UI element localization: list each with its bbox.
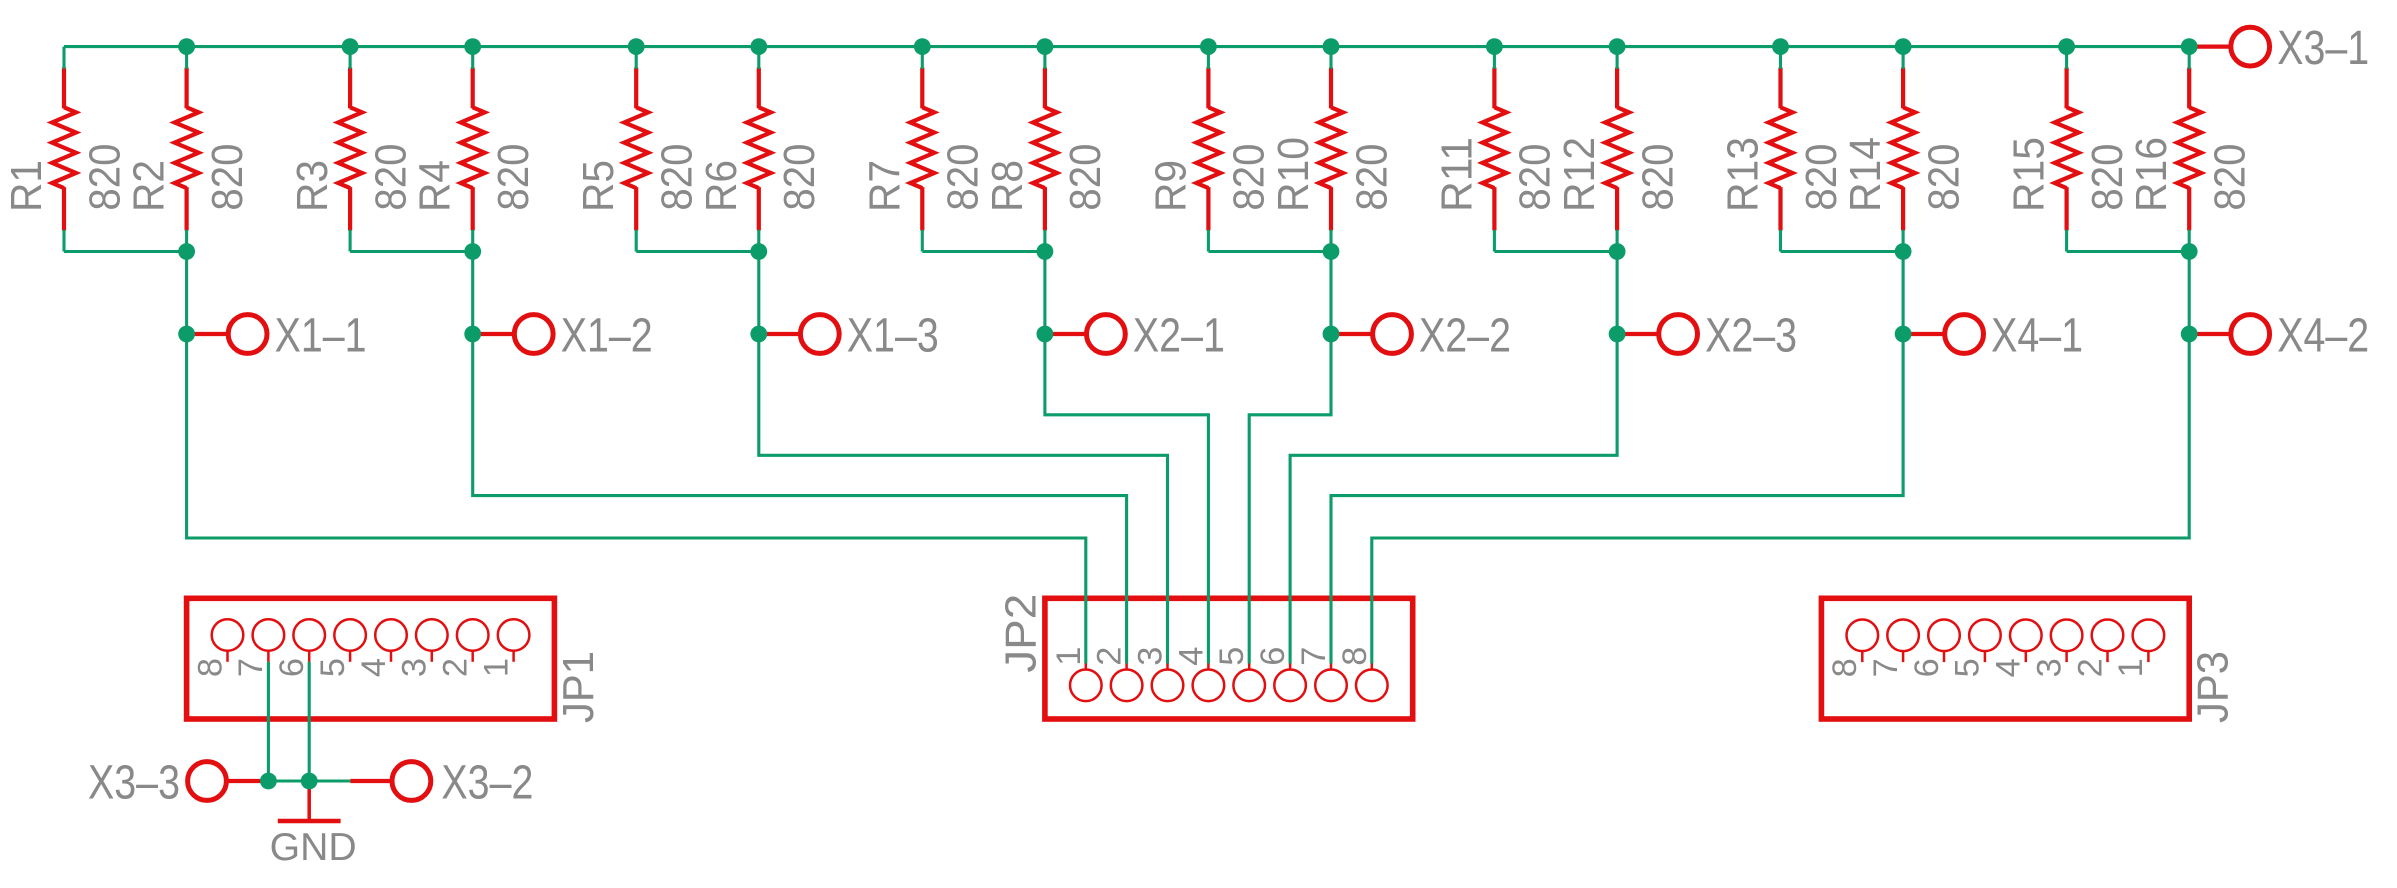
svg-text:6: 6 xyxy=(1254,647,1292,666)
svg-text:JP1: JP1 xyxy=(554,651,603,723)
svg-text:X2–1: X2–1 xyxy=(1133,309,1225,363)
svg-text:5: 5 xyxy=(314,658,352,677)
svg-text:R6: R6 xyxy=(698,160,746,212)
svg-text:R3: R3 xyxy=(289,160,337,212)
svg-text:6: 6 xyxy=(273,658,311,677)
svg-text:R10: R10 xyxy=(1270,137,1318,212)
svg-text:820: 820 xyxy=(776,144,824,211)
svg-text:X4–1: X4–1 xyxy=(1991,309,2083,363)
svg-text:R2: R2 xyxy=(126,160,174,212)
svg-text:820: 820 xyxy=(1920,144,1968,211)
svg-text:X2–3: X2–3 xyxy=(1705,309,1797,363)
svg-text:GND: GND xyxy=(270,826,357,869)
svg-text:X3–1: X3–1 xyxy=(2277,21,2369,75)
svg-text:8: 8 xyxy=(1826,658,1864,677)
svg-text:8: 8 xyxy=(191,658,229,677)
svg-text:X2–2: X2–2 xyxy=(1419,309,1511,363)
svg-text:X3–2: X3–2 xyxy=(441,756,533,810)
svg-text:820: 820 xyxy=(367,144,415,211)
svg-text:X1–2: X1–2 xyxy=(561,309,653,363)
svg-text:7: 7 xyxy=(1295,647,1333,666)
svg-text:R14: R14 xyxy=(1842,137,1890,212)
svg-text:820: 820 xyxy=(654,144,702,211)
svg-text:4: 4 xyxy=(1990,658,2028,677)
svg-text:1: 1 xyxy=(1050,647,1088,666)
svg-text:X1–3: X1–3 xyxy=(847,309,939,363)
svg-text:820: 820 xyxy=(1798,144,1846,211)
svg-text:JP2: JP2 xyxy=(997,594,1046,673)
svg-text:R15: R15 xyxy=(2006,137,2054,212)
svg-text:R4: R4 xyxy=(412,160,460,212)
svg-text:7: 7 xyxy=(232,658,270,677)
svg-text:820: 820 xyxy=(1634,144,1682,211)
svg-text:820: 820 xyxy=(1226,144,1274,211)
svg-text:3: 3 xyxy=(2030,658,2068,677)
svg-text:R12: R12 xyxy=(1556,137,1604,212)
svg-text:820: 820 xyxy=(1348,144,1396,211)
svg-text:X4–2: X4–2 xyxy=(2277,309,2369,363)
svg-text:JP3: JP3 xyxy=(2189,651,2238,723)
svg-text:820: 820 xyxy=(490,144,538,211)
svg-text:8: 8 xyxy=(1336,647,1374,666)
svg-text:820: 820 xyxy=(2207,144,2255,211)
svg-text:R8: R8 xyxy=(984,160,1032,212)
svg-text:820: 820 xyxy=(204,144,252,211)
svg-text:3: 3 xyxy=(396,658,434,677)
svg-text:3: 3 xyxy=(1132,647,1170,666)
svg-text:2: 2 xyxy=(1091,647,1129,666)
svg-text:R1: R1 xyxy=(3,160,51,212)
svg-text:7: 7 xyxy=(1867,658,1905,677)
svg-text:2: 2 xyxy=(437,658,475,677)
svg-text:X3–3: X3–3 xyxy=(88,756,180,810)
svg-text:R16: R16 xyxy=(2128,137,2176,212)
svg-text:2: 2 xyxy=(2071,658,2109,677)
svg-text:1: 1 xyxy=(477,658,515,677)
svg-text:R5: R5 xyxy=(575,160,623,212)
svg-text:X1–1: X1–1 xyxy=(275,309,367,363)
svg-text:R13: R13 xyxy=(1720,137,1768,212)
svg-text:820: 820 xyxy=(1062,144,1110,211)
svg-text:4: 4 xyxy=(1172,647,1210,666)
svg-text:R7: R7 xyxy=(861,160,909,212)
svg-text:4: 4 xyxy=(355,658,393,677)
svg-text:820: 820 xyxy=(940,144,988,211)
svg-text:6: 6 xyxy=(1908,658,1946,677)
svg-text:5: 5 xyxy=(1949,658,1987,677)
svg-text:820: 820 xyxy=(2084,144,2132,211)
svg-text:R11: R11 xyxy=(1433,137,1481,212)
svg-text:1: 1 xyxy=(2112,658,2150,677)
svg-text:820: 820 xyxy=(81,144,129,211)
svg-text:820: 820 xyxy=(1512,144,1560,211)
svg-text:5: 5 xyxy=(1213,647,1251,666)
svg-text:R9: R9 xyxy=(1147,160,1195,212)
